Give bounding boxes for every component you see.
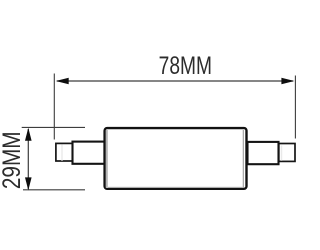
arrowhead top — [25, 128, 32, 141]
dimension line 78MM — [57, 80, 293, 82]
left pin shading line — [61, 145, 63, 161]
right pin shading line — [281, 145, 283, 160]
svg-text:29MM: 29MM — [0, 131, 25, 189]
arrowhead bottom — [25, 177, 32, 190]
body bottom inner shading — [107, 186, 243, 188]
right contact pin — [279, 144, 295, 162]
arrowhead right — [281, 78, 294, 85]
extension line top (29MM) — [22, 126, 85, 128]
lamp body tube — [105, 128, 247, 189]
svg-text:78MM: 78MM — [159, 51, 212, 79]
left ceramic end cap — [73, 142, 105, 164]
body right inner shading — [242, 130, 244, 188]
body left inner shading — [106, 130, 108, 188]
arrowhead left — [56, 78, 69, 85]
dimension line 29MM — [27, 129, 29, 189]
right ceramic end cap — [248, 142, 279, 164]
left contact pin — [56, 143, 73, 161]
extension line left (78MM) — [53, 74, 55, 140]
extension line bottom (29MM) — [23, 189, 85, 191]
extension line right (78MM) — [294, 76, 296, 139]
